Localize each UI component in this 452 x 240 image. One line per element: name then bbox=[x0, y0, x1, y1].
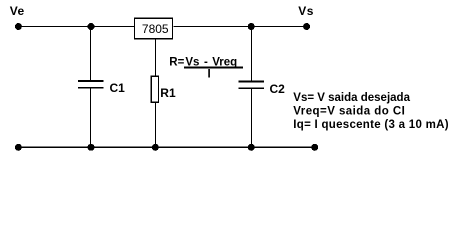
svg-text:Vreq=V saida do CI: Vreq=V saida do CI bbox=[293, 105, 405, 117]
capacitor C2 bbox=[239, 82, 286, 96]
svg-text:C2: C2 bbox=[270, 82, 286, 96]
wire C2 upper branch bbox=[251, 27, 253, 82]
resistor R1 bbox=[151, 76, 176, 102]
formula label R= (Vs - Vreq)/I bbox=[169, 56, 243, 80]
wire C2 lower branch bbox=[251, 88, 253, 147]
svg-text:I: I bbox=[208, 68, 211, 80]
node Vs terminal dot bbox=[303, 23, 310, 30]
wire C1 upper branch bbox=[90, 27, 92, 82]
wire C1 lower branch bbox=[90, 88, 92, 147]
junction R1 bottom node bbox=[152, 144, 159, 151]
svg-text:Vs - Vreq: Vs - Vreq bbox=[185, 56, 237, 68]
svg-text:Vs= V saida desejada: Vs= V saida desejada bbox=[293, 92, 410, 104]
wire regulator to R1 bbox=[155, 40, 157, 77]
svg-text:7805: 7805 bbox=[142, 22, 169, 36]
bottom rail left terminal dot bbox=[15, 144, 22, 151]
svg-text:R1: R1 bbox=[160, 86, 176, 100]
wire input to regulator bbox=[18, 26, 134, 28]
bottom rail right terminal dot bbox=[311, 144, 318, 151]
junction C1 top node bbox=[88, 23, 95, 30]
wire R1 lower branch bbox=[155, 102, 157, 147]
svg-text:R=: R= bbox=[169, 56, 184, 68]
junction C2 bottom node bbox=[248, 144, 255, 151]
ground return wire (bottom rail) bbox=[18, 146, 315, 148]
svg-text:C1: C1 bbox=[110, 81, 126, 95]
junction C2 top node bbox=[248, 23, 255, 30]
junction C1 bottom node bbox=[88, 144, 95, 151]
svg-text:Ve: Ve bbox=[10, 4, 25, 18]
regulator U1 7805 box bbox=[135, 18, 173, 39]
node Ve terminal dot bbox=[15, 23, 22, 30]
capacitor C1 bbox=[78, 81, 125, 95]
svg-text:Vs: Vs bbox=[298, 4, 314, 18]
svg-text:Iq= I quescente (3 a 10 mA): Iq= I quescente (3 a 10 mA) bbox=[293, 119, 449, 131]
wire regulator output to Vs bbox=[174, 26, 307, 28]
